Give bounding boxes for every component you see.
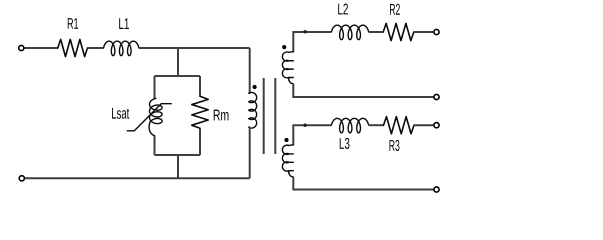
inductor L3 — [332, 118, 369, 133]
label R2 — [390, 4, 400, 15]
wire bottom secondary top lead — [293, 125, 331, 145]
output terminal top-right B — [434, 94, 439, 99]
wire bottom rail — [25, 177, 250, 179]
wire box right rail upper — [199, 76, 201, 96]
wire R2 to terminal — [414, 31, 434, 33]
resistor R2 — [383, 23, 414, 40]
label Rm — [214, 110, 229, 121]
wire R3 to terminal — [414, 124, 434, 126]
secondary winding bottom ticks — [289, 154, 293, 171]
label L1 — [119, 18, 129, 29]
resistor R3 — [384, 117, 415, 134]
saturable inductor Lsat coil — [149, 99, 162, 136]
wire box left rail lower — [154, 136, 156, 155]
transformer core line 2 — [274, 78, 276, 154]
wire bottom secondary bottom lead — [293, 177, 433, 190]
transformer secondary winding top — [282, 52, 293, 84]
label L2 — [338, 4, 348, 15]
transformer core line 1 — [263, 78, 265, 154]
resistor Rm — [192, 96, 208, 128]
bottom secondary polarity dot — [284, 138, 288, 142]
secondary winding top ticks — [289, 61, 293, 78]
junction nub on top secondary wire — [303, 30, 306, 33]
primary polarity dot — [253, 85, 257, 89]
wire L3 to R3 — [369, 124, 384, 126]
saturable inductor Lsat arrow — [127, 104, 171, 131]
wire L1 to transformer primary top — [139, 47, 250, 49]
junction nub on bottom secondary wire — [303, 124, 306, 127]
input terminal bottom-left — [19, 176, 24, 181]
label R3 — [389, 140, 399, 151]
top secondary polarity dot — [282, 45, 286, 49]
wire shunt box top rail — [155, 75, 201, 77]
wire input to R1 — [24, 47, 58, 49]
wire junction stub to shunt box — [177, 48, 179, 76]
wire L2 to R2 — [369, 31, 384, 33]
wire box bottom stub — [177, 155, 179, 178]
wire box right rail lower — [199, 128, 201, 155]
label Lsat — [112, 108, 129, 119]
input terminal top-left — [19, 45, 24, 50]
output terminal top-right A — [434, 29, 439, 34]
inductor L1 — [104, 41, 139, 56]
output terminal bottom-right A — [434, 123, 439, 128]
wire primary top lead — [249, 48, 251, 93]
transformer primary winding — [249, 92, 257, 128]
output terminal bottom-right B — [434, 187, 439, 192]
wire R1 to L1 — [88, 47, 104, 49]
wire primary bottom lead — [249, 127, 251, 178]
inductor L2 — [332, 25, 369, 40]
label L3 — [340, 138, 350, 149]
resistor R1 — [58, 39, 88, 56]
wire shunt box bottom rail — [155, 154, 201, 156]
wire box left rail upper — [154, 76, 156, 98]
wire top secondary top lead — [293, 32, 331, 52]
label R1 — [68, 18, 78, 29]
wire top secondary bottom lead — [293, 84, 433, 97]
transformer secondary winding bottom — [282, 145, 293, 177]
